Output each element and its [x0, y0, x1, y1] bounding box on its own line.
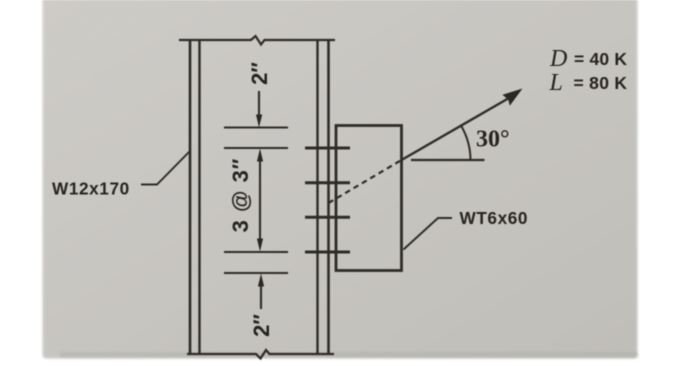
svg-text:= 80 K: = 80 K [574, 73, 628, 93]
dashed line of action [329, 160, 402, 203]
load arrowhead [503, 89, 523, 106]
load arrow shaft [402, 98, 510, 160]
svg-text:2″: 2″ [249, 314, 274, 337]
arrowhead 3@3 top (up) [257, 149, 263, 162]
extension line at first bolt row [224, 147, 288, 149]
svg-text:30°: 30° [476, 127, 510, 153]
svg-text:D: D [549, 46, 567, 72]
svg-text:= 40 K: = 40 K [574, 49, 627, 69]
WT6x60 bracket outline [336, 126, 402, 271]
svg-text:2″: 2″ [247, 62, 272, 85]
horizontal angle reference line [411, 159, 485, 161]
svg-text:W12x170: W12x170 [52, 179, 130, 199]
extension line at bracket top [224, 126, 288, 128]
arrowhead of bottom 2in dimension (up) [258, 274, 264, 287]
top edge line with break symbol [179, 36, 335, 45]
column left flange inner line [198, 39, 200, 354]
bottom edge line with break symbol [187, 350, 334, 359]
column right flange inner line [316, 39, 318, 354]
2in bottom dimension arrow stem [260, 281, 262, 309]
3@3 dimension line [259, 153, 261, 247]
arrowhead 3@3 bottom (down) [257, 239, 263, 252]
svg-text:L: L [549, 70, 563, 96]
bolt row 2 tick [305, 181, 350, 184]
bolt row 3 tick [305, 216, 350, 219]
leader line for W12x170 [141, 151, 190, 185]
extension line at bracket bottom [224, 272, 288, 274]
column right flange outer line [327, 39, 330, 354]
30 degree arc [461, 125, 471, 160]
column W12x170: left flange outer line [189, 39, 192, 354]
svg-text:WT6x60: WT6x60 [460, 208, 529, 228]
arrowhead of top 2in dimension (down) [256, 115, 262, 128]
leader line for WT6x60 [404, 218, 453, 250]
extension line at last bolt row [224, 251, 288, 253]
bolt row 4 tick [305, 251, 350, 254]
svg-text:3 @ 3″: 3 @ 3″ [228, 158, 253, 233]
2in top dimension arrow stem [258, 91, 260, 119]
bolt row 1 tick [305, 147, 350, 150]
